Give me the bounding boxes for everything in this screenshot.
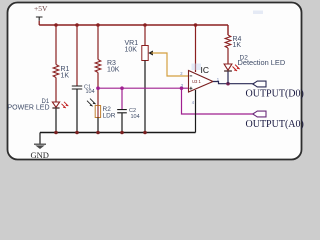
svg-text:IC: IC [201,65,210,75]
wire R3 to LDR node [97,73,99,106]
capacitor C2 [117,108,139,120]
wire LDR node to IC plus input [98,87,189,89]
svg-text:10K: 10K [125,46,138,53]
node ground junction C2 [120,131,124,135]
svg-text:104: 104 [131,114,140,120]
wire rail to C1 [76,25,78,86]
wire D1 to ground rail [55,109,57,133]
svg-text:1K: 1K [61,72,70,79]
node ground junction VR1 [143,131,147,135]
op-amp U3:1 IC [180,64,220,106]
svg-text:10K: 10K [107,67,120,74]
+5V power terminal [34,4,48,25]
svg-text:OUTPUT(A0): OUTPUT(A0) [246,119,304,130]
node junction on rail at R3 [96,23,100,27]
wire node to C2 [121,88,123,109]
LED D1 [8,99,69,111]
node ground junction LDR [96,131,100,135]
resistor R3 [95,60,120,74]
photoresistor R2 LDR [87,99,116,120]
resistor R1 [53,65,69,80]
node A0 branch junction [180,86,184,90]
output tag D0 [246,81,304,99]
wire +5V top rail [39,24,228,26]
svg-text:1K: 1K [233,42,242,49]
node junction on rail at C1 [75,23,79,27]
LED D2 [224,55,285,71]
node C2 junction [120,86,124,90]
wire rail to IC V+ [195,25,197,72]
wire VR1 wiper to IC minus input [151,53,188,76]
node junction on rail at IC V+ [194,23,198,27]
wire D2 to output node [227,72,229,84]
ground symbol [31,133,49,161]
wire C1 to ground rail [76,89,78,132]
resistor R4 [225,35,241,49]
node junction on rail at R1 [54,23,58,27]
node LDR junction [96,86,100,90]
wire rail to R1 [55,25,57,65]
wire VR1 to ground rail [144,61,146,133]
wire rail to VR1 [144,25,146,46]
svg-text:Detection LED: Detection LED [238,58,286,67]
svg-text:OUTPUT(D0): OUTPUT(D0) [246,88,304,99]
wire rail to R3 [97,25,99,60]
capacitor C1 [72,84,95,95]
wire rail corner to R4 [227,25,229,35]
wire R1 to D1 [55,78,57,103]
svg-text:LDR: LDR [103,112,116,119]
wire R4 to D2 [227,48,229,64]
wire IC output to D0 tag [213,82,253,84]
wire IC ground pin to rail [195,90,197,133]
svg-text:POWER LED: POWER LED [8,104,50,111]
svg-text:+5V: +5V [34,4,48,13]
wire A0 branch to output tag [182,88,253,114]
wire C2 to ground rail [121,113,123,132]
artifact smudge [253,11,263,15]
output tag A0 [246,111,304,130]
node junction on rail at VR1 [143,23,147,27]
potentiometer VR1 [125,40,153,60]
wire LDR to ground rail [97,118,99,133]
node D2 output junction [226,82,230,86]
schematic panel frame [8,3,302,160]
node ground junction D1 [54,131,58,135]
svg-text:104: 104 [86,89,95,95]
svg-text:U3 1: U3 1 [192,79,202,84]
svg-text:GND: GND [31,150,49,160]
node ground junction C1 [75,131,79,135]
ground rail [40,132,196,134]
